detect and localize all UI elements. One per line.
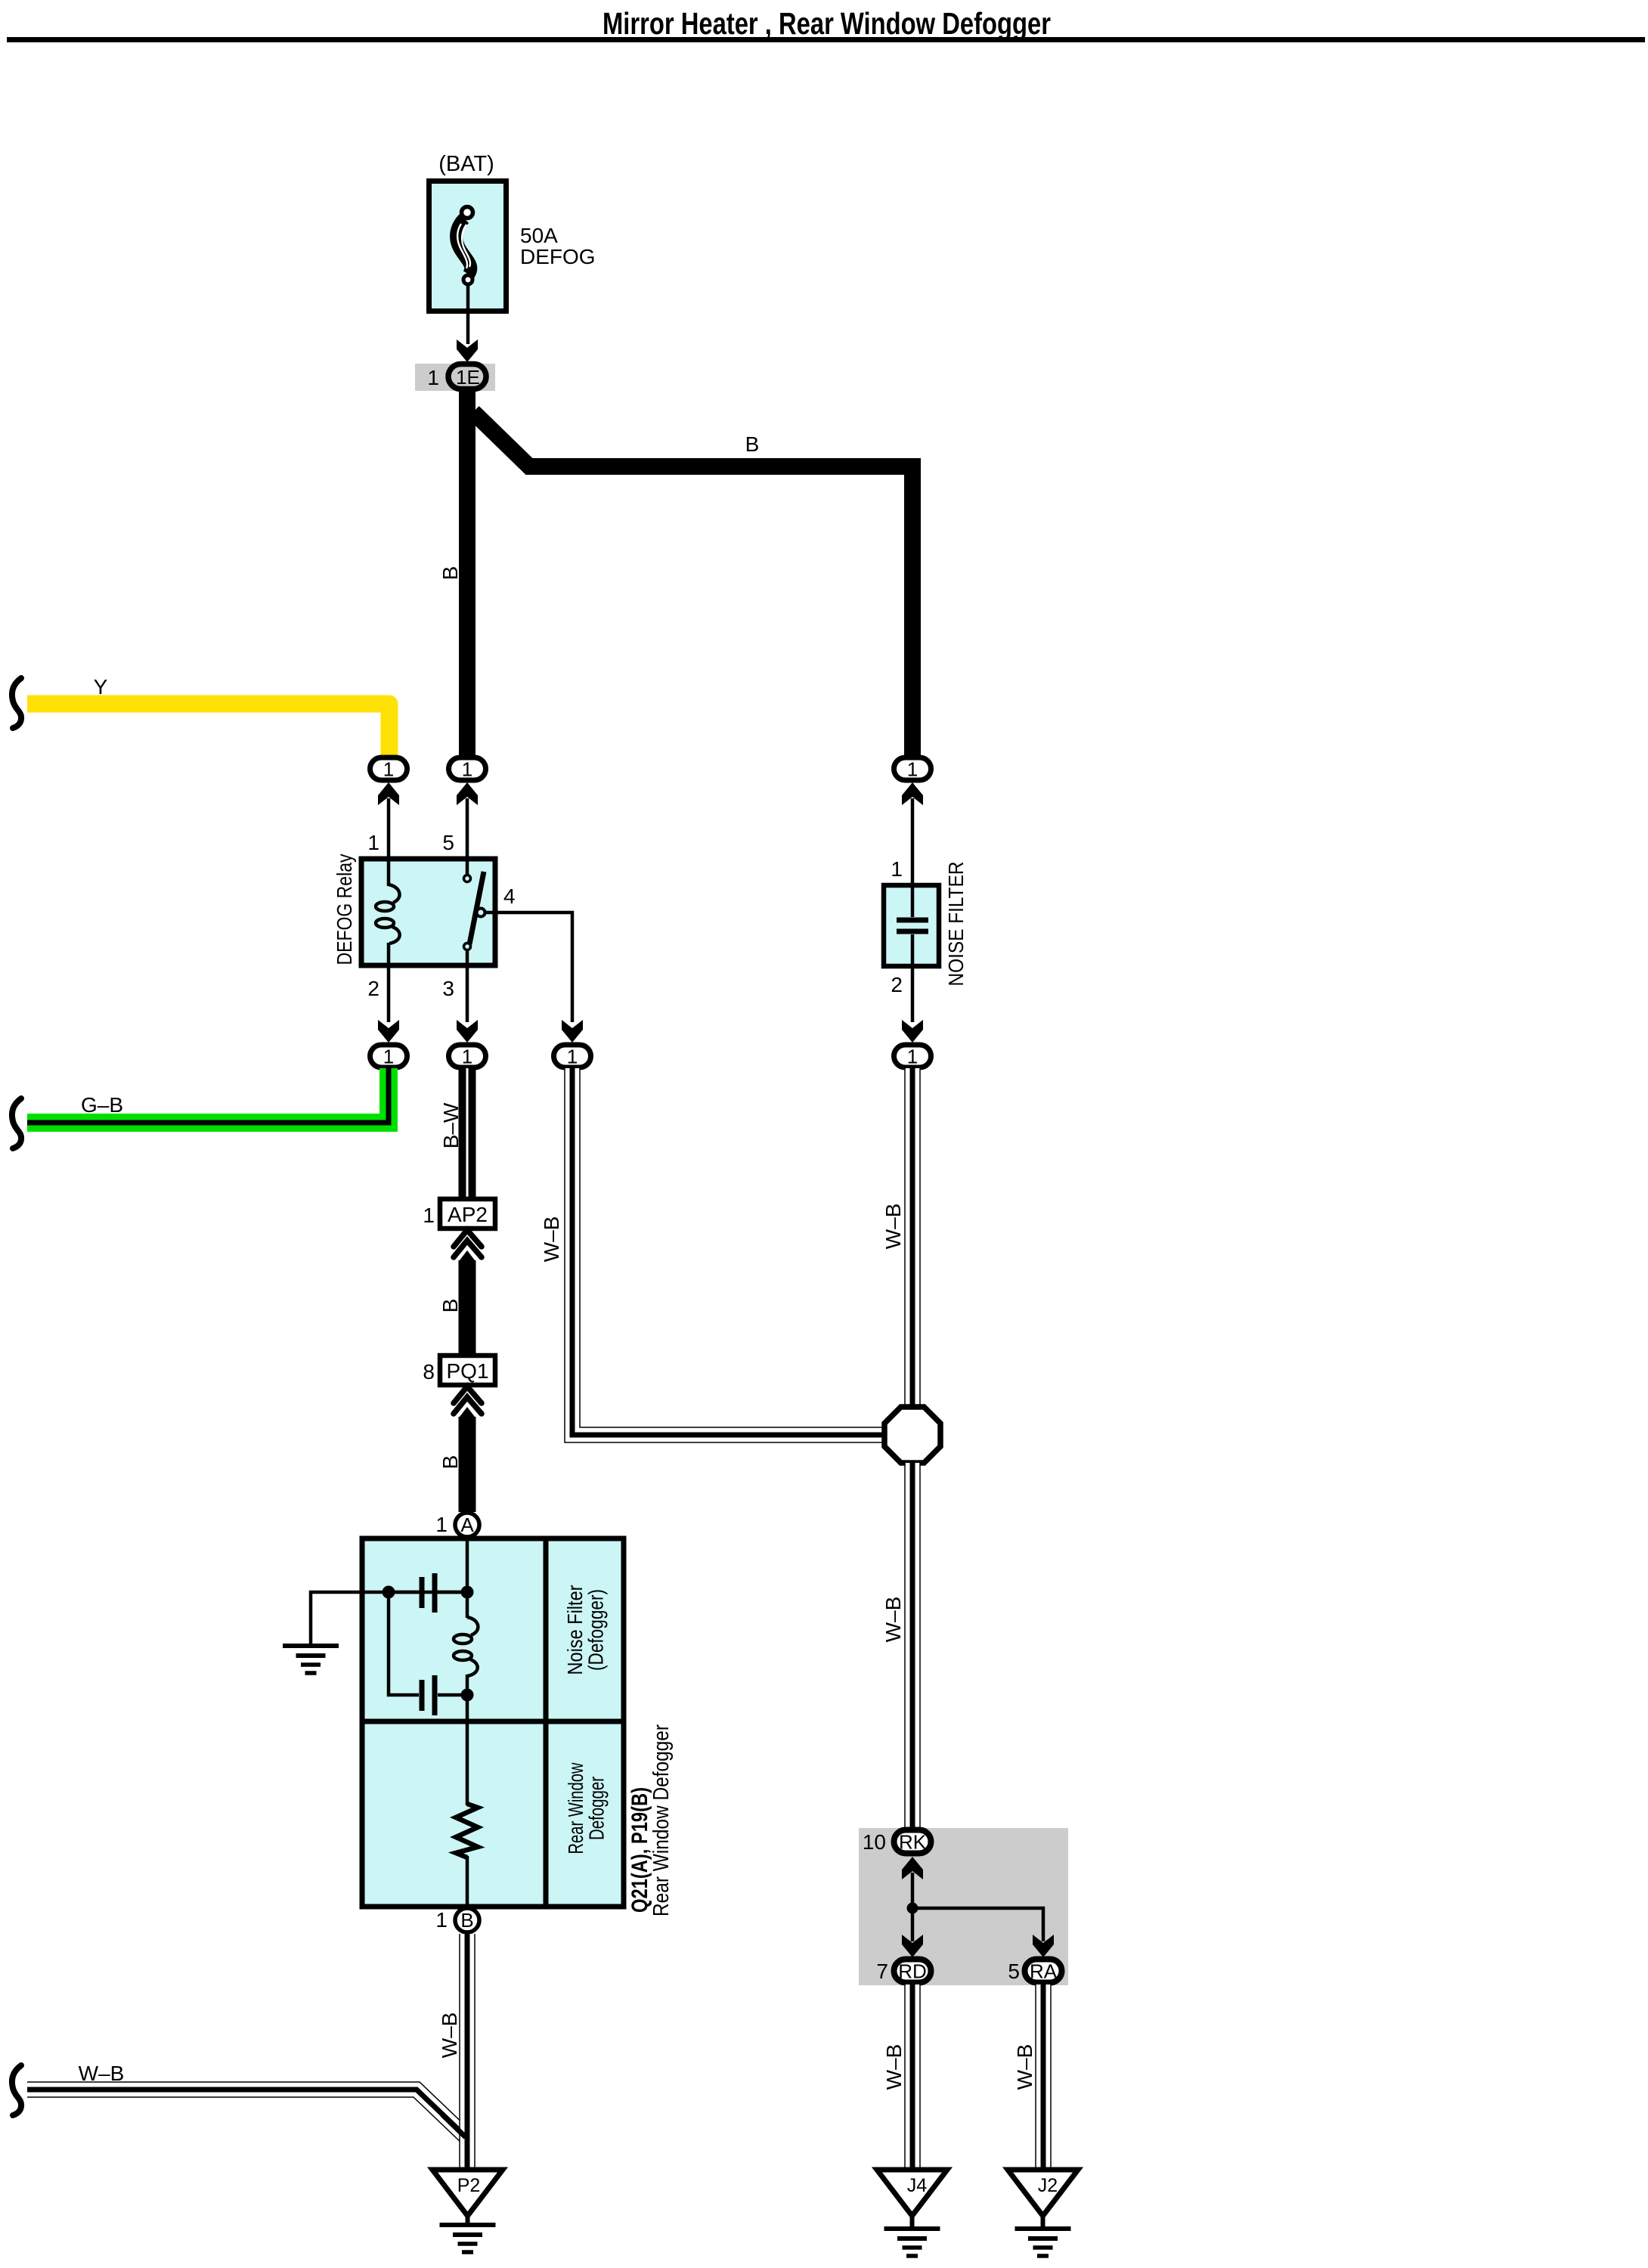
- svg-text:1: 1: [567, 1046, 578, 1068]
- svg-text:RK: RK: [899, 1831, 927, 1854]
- svg-text:W–B: W–B: [540, 1216, 563, 1263]
- label Noise Filter (Defogger): [563, 1585, 608, 1675]
- svg-text:Y: Y: [94, 675, 108, 699]
- wire from relay pin 4: [485, 912, 572, 1022]
- svg-text:B–W: B–W: [439, 1102, 463, 1148]
- wire to relay pin 5: [466, 798, 469, 862]
- svg-text:Noise Filter: Noise Filter: [563, 1585, 587, 1675]
- svg-text:W–B: W–B: [438, 2012, 461, 2059]
- node dot bottom: [461, 1689, 474, 1702]
- svg-text:1: 1: [427, 366, 439, 389]
- connector 1E oval: [448, 364, 486, 389]
- connector 1 (below relay pin2): [370, 1045, 407, 1068]
- break squiggle of wire Y: [12, 678, 21, 728]
- J2 ground stem: [1041, 2216, 1045, 2229]
- svg-text:(BAT): (BAT): [438, 152, 494, 176]
- capacitor bottom wire gap: [438, 1693, 467, 1697]
- svg-text:2: 2: [367, 977, 379, 1000]
- capacitor top wire gaps: [389, 1591, 419, 1594]
- wire B vertical from 1E to relay pin5 connector: [459, 392, 476, 755]
- svg-text:50A: 50A: [520, 224, 558, 247]
- svg-text:2: 2: [891, 973, 903, 996]
- internal ground branch wire: [311, 1592, 467, 1644]
- wire B-W (black/white): [459, 1068, 476, 1199]
- svg-text:1: 1: [435, 1513, 448, 1536]
- wire node to RA: [912, 1908, 1043, 1941]
- fusible link symbol: [457, 207, 473, 285]
- ground symbol under P2: [440, 2225, 496, 2252]
- J4 ground stem: [910, 2216, 915, 2229]
- svg-text:3: 3: [442, 977, 454, 1000]
- connector PQ1: [440, 1356, 495, 1385]
- svg-text:1: 1: [462, 1046, 472, 1068]
- connector 1 (relay pin1 side, from Y wire): [370, 758, 407, 781]
- capacitor in noise filter: [897, 885, 928, 966]
- wire B from AP2 to PQ1: [459, 1250, 476, 1262]
- svg-text:7: 7: [876, 1960, 888, 1983]
- label Rear Window Defogger (inner): [564, 1762, 609, 1854]
- svg-text:G–B: G–B: [81, 1093, 123, 1117]
- junction block gray box: [859, 1828, 1068, 1985]
- svg-text:1: 1: [907, 758, 918, 781]
- svg-text:RD: RD: [898, 1960, 927, 1983]
- arrow into connector (pin5): [457, 782, 478, 805]
- P2 ground stem: [466, 2216, 470, 2225]
- svg-text:1: 1: [367, 831, 379, 854]
- svg-text:A: A: [460, 1514, 474, 1536]
- ground triangle J4: [877, 2170, 947, 2216]
- wire W-B RD to J4: [904, 1984, 921, 2169]
- svg-text:Mirror Heater , Rear Window De: Mirror Heater , Rear Window Defogger: [603, 6, 1051, 41]
- connector 1 (noise filter pin1 side): [894, 758, 931, 781]
- svg-text:DEFOG: DEFOG: [520, 245, 596, 268]
- svg-text:Rear Window: Rear Window: [564, 1762, 587, 1854]
- svg-text:J4: J4: [907, 2175, 928, 2196]
- wire from noise filter pin 2: [911, 966, 915, 1022]
- wire to noise filter pin 1: [911, 798, 915, 888]
- wire B branch diagonal and horizontal to noise filter drop: [473, 412, 904, 466]
- ground symbol under J2: [1015, 2229, 1071, 2256]
- connector 1 (below noise filter): [894, 1045, 931, 1068]
- connector RD: [894, 1960, 931, 1983]
- rear window defogger box: [362, 1538, 624, 1907]
- svg-text:W–B: W–B: [1013, 2044, 1036, 2090]
- connector RK: [894, 1830, 931, 1854]
- connector 1 (below relay pin4): [554, 1045, 591, 1068]
- svg-text:DEFOG Relay: DEFOG Relay: [333, 854, 356, 965]
- svg-text:10: 10: [863, 1830, 886, 1854]
- core splice of harness branch: [442, 2115, 466, 2137]
- wire node to RD: [911, 1908, 915, 1941]
- svg-text:1: 1: [423, 1204, 435, 1227]
- connector AP2: [440, 1199, 495, 1228]
- svg-text:1: 1: [383, 758, 394, 781]
- wire W-B left harness branch: [27, 2090, 466, 2136]
- capacitor bottom (defogger): [422, 1675, 435, 1715]
- title underline rule: [7, 37, 1645, 42]
- wire from resistor to connector B: [466, 1856, 469, 1908]
- svg-text:B: B: [460, 1909, 473, 1932]
- ground triangle J2: [1008, 2170, 1078, 2216]
- wire RK to node: [911, 1873, 915, 1908]
- svg-text:B: B: [745, 432, 760, 456]
- svg-text:8: 8: [423, 1360, 435, 1383]
- node dot left: [383, 1586, 395, 1599]
- arrow into connector (pin1): [378, 782, 399, 805]
- junction node dot: [907, 1903, 918, 1914]
- wire W-B connector B to P2: [459, 1934, 476, 2167]
- ground symbol under J4: [884, 2229, 940, 2256]
- wire to relay pin 1: [387, 798, 391, 862]
- wire from fuse to 1E: [466, 284, 470, 344]
- svg-text:NOISE FILTER: NOISE FILTER: [944, 862, 968, 987]
- fuse 50A DEFOG box: [429, 181, 506, 311]
- svg-text:P2: P2: [457, 2175, 481, 2196]
- svg-text:4: 4: [503, 885, 516, 908]
- svg-text:B: B: [438, 1455, 462, 1470]
- arrow into connector 1E: [457, 339, 478, 362]
- svg-text:1: 1: [383, 1046, 394, 1068]
- svg-text:1: 1: [907, 1046, 918, 1068]
- svg-text:AP2: AP2: [448, 1203, 488, 1226]
- svg-text:W–B: W–B: [882, 2044, 906, 2090]
- wire from relay pin 2: [387, 965, 391, 1022]
- svg-text:1E: 1E: [456, 366, 480, 389]
- double chevron below AP2: [454, 1230, 482, 1257]
- svg-text:1: 1: [435, 1908, 448, 1932]
- arrow into connector (noise filter out): [902, 1020, 923, 1043]
- ground triangle P2: [432, 2170, 503, 2216]
- wire W-B noise filter to junction: [904, 1068, 921, 1409]
- wire from relay pin 3: [466, 965, 469, 1022]
- wire B vertical drop to noise filter connector: [904, 458, 921, 755]
- svg-text:PQ1: PQ1: [446, 1359, 488, 1383]
- left parallel branch wire: [389, 1592, 419, 1695]
- break squiggle of wire G-B: [12, 1098, 21, 1148]
- arrow into RD: [902, 1935, 923, 1957]
- svg-text:Defogger: Defogger: [585, 1777, 609, 1840]
- svg-text:W–B: W–B: [79, 2062, 125, 2085]
- arrow into connector (pin4 side): [562, 1020, 583, 1043]
- connector A circle: [455, 1513, 479, 1537]
- double chevron below PQ1: [454, 1387, 482, 1414]
- connector 1 (relay pin5 side, from B wire): [449, 758, 486, 781]
- wire W-B from pin4 connector to junction: [572, 1068, 886, 1435]
- ground (defogger noise filter): [283, 1646, 339, 1673]
- break squiggle of wire W-B: [12, 2065, 21, 2115]
- svg-text:1: 1: [891, 857, 903, 881]
- svg-text:(Defogger): (Defogger): [584, 1589, 608, 1671]
- coil (defogger noise filter): [454, 1592, 478, 1695]
- defogger box vertical divider: [544, 1538, 549, 1907]
- wire G-B (green/black): [27, 1068, 389, 1123]
- arrow into connector (pin2 side): [378, 1020, 399, 1043]
- wire W-B junction to RK: [904, 1463, 921, 1828]
- arrow into RK: [902, 1857, 923, 1879]
- capacitor top (defogger): [422, 1573, 435, 1613]
- svg-text:5: 5: [442, 831, 454, 854]
- label Q21(A), P19(B) Rear Window Defogger: [627, 1724, 674, 1916]
- noise filter box: [884, 885, 939, 966]
- wire B from PQ1 to defogger: [459, 1407, 476, 1418]
- arrow into RA: [1033, 1935, 1054, 1957]
- svg-text:B: B: [438, 1299, 462, 1313]
- connector 1 (below relay pin3): [449, 1045, 486, 1068]
- defogger box horizontal divider: [362, 1719, 624, 1724]
- connector B circle: [455, 1908, 479, 1932]
- svg-text:W–B: W–B: [881, 1597, 905, 1643]
- relay U: DEFOG Relay box: [361, 859, 495, 965]
- relay switch: [464, 859, 485, 965]
- internal wire from connector A: [466, 1537, 469, 1592]
- svg-text:J2: J2: [1038, 2175, 1058, 2196]
- relay coil: [376, 859, 400, 965]
- wire from noise filter to resistor: [466, 1695, 469, 1805]
- svg-text:W–B: W–B: [881, 1204, 905, 1250]
- svg-text:1: 1: [462, 758, 472, 781]
- arrow into connector (pin3 side): [457, 1020, 478, 1043]
- svg-text:5: 5: [1008, 1960, 1020, 1983]
- arrow into connector (noise filter): [902, 782, 923, 805]
- junction octagon: [884, 1407, 940, 1463]
- connector 1E gray strip: [415, 364, 495, 391]
- connector RA: [1025, 1960, 1062, 1983]
- node dot right top: [461, 1586, 474, 1599]
- svg-text:Rear Window Defogger: Rear Window Defogger: [649, 1724, 674, 1916]
- wire Y (yellow): [27, 704, 389, 755]
- svg-text:RA: RA: [1030, 1960, 1058, 1983]
- svg-text:B: B: [438, 566, 462, 581]
- wire W-B RA to J2: [1035, 1984, 1052, 2169]
- resistor (defogger grid): [456, 1804, 478, 1857]
